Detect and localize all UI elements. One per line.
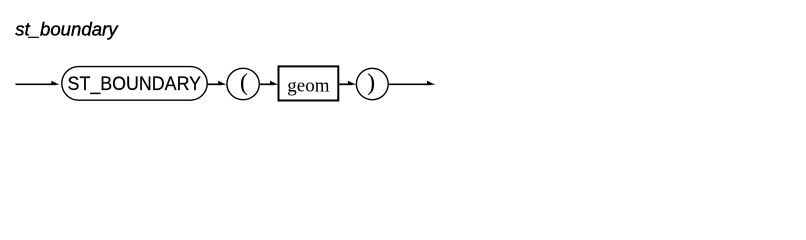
svg-text:st_boundary: st_boundary — [15, 18, 119, 39]
arrowhead: entry — [51, 81, 59, 85]
wire: entry line — [16, 83, 57, 85]
literal ( : circle — [227, 68, 259, 99]
arrowhead: before ( — [218, 81, 226, 85]
railroad syntax diagram: st_boundary — [0, 0, 806, 122]
svg-text:(: ( — [240, 69, 248, 96]
svg-text:ST_BOUNDARY: ST_BOUNDARY — [68, 74, 202, 95]
svg-text:): ) — [367, 69, 375, 96]
literal ) : circle — [356, 68, 388, 99]
wire: geom to ) — [339, 83, 352, 85]
svg-text:geom: geom — [287, 76, 329, 97]
wire: stadium to ( — [207, 83, 222, 85]
terminal ST_BOUNDARY: stadium — [62, 67, 207, 101]
arrowhead: before geom — [270, 81, 278, 85]
wire: exit line — [388, 83, 431, 85]
nonterminal geom: rectangle — [279, 66, 339, 100]
wire: ( to geom — [259, 83, 274, 85]
arrowhead: exit — [427, 81, 435, 85]
arrowhead: before ) — [348, 81, 356, 85]
